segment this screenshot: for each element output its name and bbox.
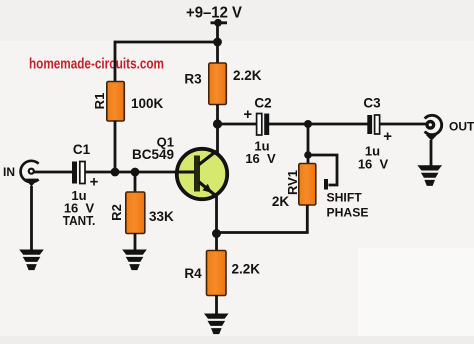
wire R3 top lead xyxy=(216,42,219,64)
node supply junction xyxy=(213,38,222,47)
input jack IN xyxy=(3,161,39,187)
svg-text:2.2K: 2.2K xyxy=(233,68,262,83)
node base junction A xyxy=(111,168,120,177)
svg-text:OUT: OUT xyxy=(449,120,474,134)
svg-text:SHIFT: SHIFT xyxy=(327,191,363,205)
potentiometer RV1 xyxy=(272,164,316,210)
wire collector to C2 xyxy=(218,123,258,126)
svg-text:R1: R1 xyxy=(92,93,107,110)
svg-text:C1: C1 xyxy=(73,142,91,157)
svg-text:R3: R3 xyxy=(184,72,202,87)
svg-text:IN: IN xyxy=(3,165,15,179)
wire R1 top lead xyxy=(114,41,117,82)
svg-text:TANT.: TANT. xyxy=(63,213,96,228)
node RV1 junction xyxy=(304,120,312,128)
ground R4 xyxy=(204,314,229,335)
svg-text:PHASE: PHASE xyxy=(327,206,369,220)
wire R2 bottom lead xyxy=(134,233,137,251)
svg-text:100K: 100K xyxy=(131,96,164,111)
svg-text:C2: C2 xyxy=(254,96,271,111)
svg-text:homemade-circuits.com: homemade-circuits.com xyxy=(29,56,164,73)
wire R3 bottom lead xyxy=(216,105,219,125)
transistor Q1 BC549 xyxy=(132,135,227,200)
svg-text:16 V: 16 V xyxy=(358,157,389,172)
output jack OUT xyxy=(425,115,474,141)
wire supply drop xyxy=(216,24,219,43)
node RV1 wiper tap xyxy=(304,151,312,159)
wire C3 to OUT jack xyxy=(380,123,427,126)
resistor R2 xyxy=(109,192,174,234)
resistor R1 xyxy=(92,82,164,122)
wire collector lead xyxy=(216,123,219,154)
wire RV1 top lead xyxy=(307,124,310,164)
node collector junction xyxy=(213,119,222,128)
svg-text:R4: R4 xyxy=(184,266,202,281)
svg-text:33K: 33K xyxy=(149,209,174,224)
node emitter junction xyxy=(212,229,221,238)
capacitor C1 xyxy=(63,142,99,228)
svg-text:16 V: 16 V xyxy=(245,151,276,166)
wire R4 bottom lead xyxy=(215,295,218,315)
ground R2 xyxy=(122,250,147,271)
wire IN jack to C1 xyxy=(33,171,73,174)
resistor R3 xyxy=(184,63,261,105)
wire C2 to RV1 junction xyxy=(269,123,308,126)
capacitor C3 xyxy=(358,96,392,172)
svg-text:C3: C3 xyxy=(363,96,381,111)
wire IN shell down xyxy=(30,186,33,251)
wire OUT shell down xyxy=(430,140,433,167)
wire R4 top lead xyxy=(215,234,218,252)
ground OUT xyxy=(417,165,442,186)
node R2 junction xyxy=(131,168,140,177)
svg-text:+: + xyxy=(243,106,252,123)
svg-text:BC549: BC549 xyxy=(132,147,174,162)
wire R1 bottom lead xyxy=(114,121,117,174)
wire junction to C3 xyxy=(308,123,368,126)
wire R2 top lead xyxy=(134,172,137,193)
resistor R4 xyxy=(184,251,260,296)
label SHIFT PHASE xyxy=(327,191,369,220)
svg-text:RV1: RV1 xyxy=(285,170,300,195)
wire C1 to base junction xyxy=(85,171,115,174)
svg-text:2.2K: 2.2K xyxy=(232,262,261,277)
wire base rail xyxy=(115,171,178,174)
svg-text:+: + xyxy=(90,174,99,191)
capacitor C2 xyxy=(243,96,276,167)
supply terminal +9-12 V xyxy=(186,4,242,26)
ground IN xyxy=(19,250,44,271)
svg-text:2K: 2K xyxy=(272,194,290,209)
svg-text:R2: R2 xyxy=(109,204,124,221)
wire RV1 wiper arm xyxy=(308,155,337,190)
wire emitter lead xyxy=(215,194,218,234)
wire RV1 bottom to emitter node xyxy=(217,205,308,233)
wire top rail to R1 xyxy=(115,41,218,44)
svg-text:+: + xyxy=(383,128,392,145)
svg-text:+9–12 V: +9–12 V xyxy=(186,4,242,21)
